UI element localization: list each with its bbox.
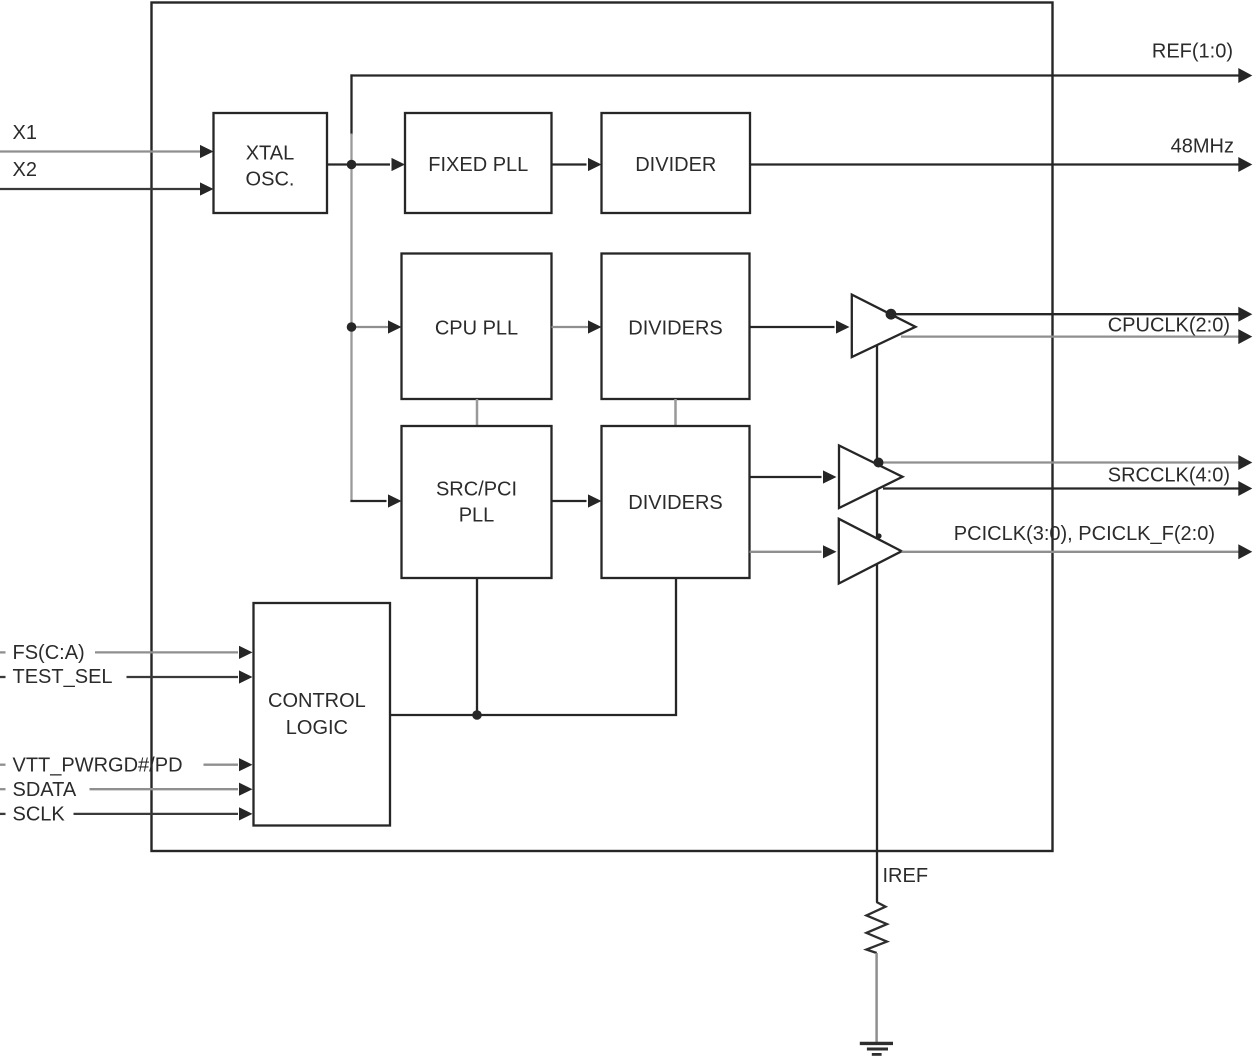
- wire to SRC/PCI PLL: [350, 494, 401, 507]
- wire vertical trunk (black top): [350, 74, 352, 134]
- svg-text:REF(1:0): REF(1:0): [1152, 41, 1233, 63]
- wire SRCCLK out (bottom): [883, 481, 1252, 496]
- wire CPUCLK out (top): [891, 307, 1252, 322]
- svg-text:FS(C:A): FS(C:A): [13, 642, 85, 664]
- wire buffer trunk vertical: [876, 346, 878, 903]
- node control junction: [472, 710, 482, 720]
- svg-text:DIVIDERS: DIVIDERS: [628, 492, 722, 514]
- wire to FIXED PLL: [352, 158, 406, 171]
- wire SRCCLK out (top): [879, 455, 1253, 470]
- block DIVIDERS (SRC): [602, 426, 750, 578]
- wire SRC/PCI PLL to control net: [476, 578, 478, 715]
- ground: [860, 1043, 893, 1054]
- wire PCICLK out: [902, 544, 1253, 559]
- svg-text:OSC.: OSC.: [246, 169, 295, 191]
- svg-text:CPUCLK(2:0): CPUCLK(2:0): [1108, 314, 1230, 336]
- svg-text:DIVIDER: DIVIDER: [635, 154, 716, 176]
- wire vertical trunk (grey): [350, 134, 352, 501]
- svg-text:PLL: PLL: [459, 505, 495, 527]
- block XTAL OSC: [214, 113, 328, 213]
- wire FIXED PLL to DIVIDER: [552, 158, 602, 171]
- svg-text:PCICLK(3:0), PCICLK_F(2:0): PCICLK(3:0), PCICLK_F(2:0): [954, 523, 1215, 545]
- wire to CPU PLL: [352, 320, 402, 333]
- buffer SRC clock: [839, 446, 903, 509]
- wire DIVIDERS to CPU buffer: [750, 320, 850, 333]
- block SRC/PCI PLL: [402, 426, 552, 578]
- svg-text:DIVIDERS: DIVIDERS: [628, 317, 722, 339]
- svg-text:SRCCLK(4:0): SRCCLK(4:0): [1108, 464, 1230, 486]
- node PCI buffer tap: [876, 533, 881, 538]
- wire X1: [0, 145, 214, 158]
- wire XTAL output: [327, 163, 352, 165]
- wire X2: [0, 182, 214, 195]
- svg-text:CONTROL: CONTROL: [268, 690, 366, 712]
- wire CPUCLK out (bottom): [901, 329, 1252, 344]
- wire VTT_PWRGD#/PD: [0, 758, 253, 771]
- svg-text:VTT_PWRGD#/PD: VTT_PWRGD#/PD: [13, 755, 183, 777]
- wire FS(C:A): [0, 646, 253, 659]
- buffer PCI clock: [839, 519, 902, 584]
- svg-text:TEST_SEL: TEST_SEL: [13, 666, 113, 688]
- svg-text:SRC/PCI: SRC/PCI: [436, 478, 517, 500]
- wire REF out: [350, 68, 1252, 83]
- wire DIVIDERS to SRC buffer: [750, 470, 837, 483]
- wire SDATA: [0, 783, 253, 796]
- chip boundary: [152, 3, 1053, 852]
- buffer CPU clock: [852, 295, 916, 357]
- svg-text:X2: X2: [13, 159, 37, 181]
- svg-text:SDATA: SDATA: [13, 779, 77, 801]
- wire resistor to ground: [875, 953, 878, 1043]
- block CPU PLL: [402, 254, 552, 400]
- wire 48MHz out: [750, 157, 1252, 172]
- block FIXED PLL: [405, 113, 552, 213]
- node CPU junction: [347, 322, 357, 332]
- wire DIVIDERS / DIVIDERS link: [674, 399, 677, 426]
- svg-text:X1: X1: [13, 122, 37, 144]
- svg-text:FIXED PLL: FIXED PLL: [428, 154, 528, 176]
- wire control logic output: [390, 578, 676, 715]
- wire SCLK: [0, 807, 253, 820]
- wire SRC/PCI PLL to DIVIDERS: [552, 494, 602, 507]
- svg-text:LOGIC: LOGIC: [286, 717, 348, 739]
- wire TEST_SEL: [0, 670, 253, 683]
- resistor IREF: [866, 902, 887, 953]
- wire DIVIDERS to PCI buffer: [750, 545, 837, 558]
- svg-text:CPU PLL: CPU PLL: [435, 317, 518, 339]
- wire CPU PLL / SRC PLL link: [476, 399, 479, 426]
- svg-text:IREF: IREF: [883, 865, 929, 887]
- node SRC buffer tap: [874, 458, 884, 468]
- block DIVIDER: [602, 113, 751, 213]
- svg-text:SCLK: SCLK: [13, 804, 66, 826]
- svg-text:48MHz: 48MHz: [1171, 135, 1234, 157]
- wire CPU PLL to DIVIDERS: [552, 320, 602, 333]
- node XTAL junction: [347, 160, 357, 170]
- block DIVIDERS (CPU): [602, 254, 750, 400]
- svg-text:XTAL: XTAL: [246, 143, 295, 165]
- block CONTROL LOGIC: [254, 603, 391, 826]
- node CPU buffer tap: [886, 309, 897, 320]
